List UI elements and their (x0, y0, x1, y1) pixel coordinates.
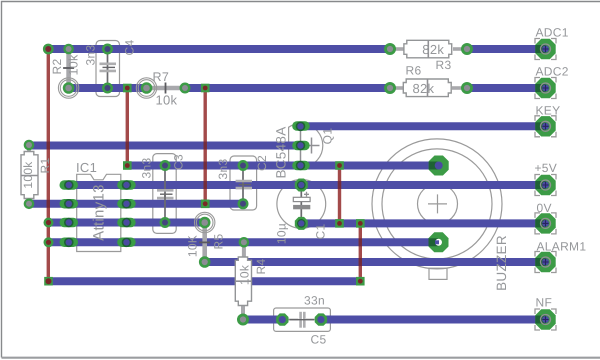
pad ADC2 (535, 78, 555, 98)
svg-text:ADC2: ADC2 (536, 65, 569, 79)
wire row F: IC1 to +5V (69, 181, 546, 189)
svg-text:BUZZER: BUZZER (494, 235, 509, 291)
transistor Q1 pads (292, 121, 310, 170)
svg-text:ADC1: ADC1 (536, 26, 569, 40)
capacitor C3 symbol (164, 166, 166, 199)
resistor R2 bottom via (58, 78, 78, 98)
svg-text:R3: R3 (436, 58, 452, 72)
wire crossing red3/rowE (204, 162, 207, 170)
pad NF (535, 309, 555, 329)
capacitor C5 symbol (283, 319, 299, 321)
wire row H left: via to R5 via (49, 219, 205, 227)
transistor Q1 outline (289, 124, 323, 168)
svg-text:R6: R6 (406, 64, 422, 78)
svg-text:R1: R1 (38, 158, 52, 174)
capacitor C2 pads (238, 160, 249, 171)
wire red 1 (47, 49, 50, 281)
resistor R1 pads (24, 140, 35, 151)
resistor R1 body (21, 152, 38, 199)
resistor R6 pads (384, 82, 396, 94)
wire row A right: R3 to ADC1 (467, 45, 546, 53)
svg-text:Attiny13: Attiny13 (91, 184, 108, 241)
resistor R4 body (235, 257, 251, 306)
svg-text:10k: 10k (156, 93, 178, 108)
wire red 4 (338, 166, 341, 224)
node top-left pad (43, 44, 54, 55)
capacitor C2 outline (230, 156, 257, 210)
svg-text:C3: C3 (172, 154, 186, 170)
wire row H right: C1 to 0V (301, 219, 546, 227)
wire row A left: pad to R3 (48, 45, 390, 53)
capacitor C5 outline (274, 308, 331, 331)
capacitor C4 outline (96, 41, 120, 97)
junction via red3 top (201, 84, 210, 93)
resistor R6 tick (427, 79, 429, 97)
resistor R4 bottom pad (237, 314, 249, 326)
capacitor C4 symbol (107, 49, 109, 71)
resistor R4 tick (235, 280, 251, 282)
svg-text:10K: 10K (186, 235, 200, 257)
resistor R3 body (404, 40, 452, 58)
resistor R6 body (403, 79, 451, 97)
resistor R7 right pad (180, 83, 191, 94)
pad 0V (535, 213, 555, 233)
svg-text:KEY: KEY (536, 104, 561, 118)
svg-text:10µ: 10µ (275, 223, 289, 244)
wire row I: via to buzzer bottom (49, 238, 439, 246)
wire row B mid: R7 to R6 (185, 84, 390, 92)
pad ADC1 (535, 39, 555, 59)
resistor R7 left via (136, 78, 156, 98)
junction red2 bottom (123, 161, 132, 170)
resistor R1 tick (21, 175, 38, 177)
resistor R6 leads (390, 86, 404, 90)
svg-text:3n3: 3n3 (140, 158, 154, 179)
buzzer top pad (429, 156, 449, 176)
svg-text:82k: 82k (422, 42, 444, 57)
wire row K: via to via (49, 277, 361, 285)
resistor R5 top via (195, 212, 215, 232)
pad +5V (535, 175, 555, 195)
svg-text:BC548A: BC548A (274, 126, 289, 178)
svg-text:Q1: Q1 (321, 128, 335, 145)
wire crossing red3/rowD (204, 142, 207, 150)
svg-text:C4: C4 (123, 40, 137, 56)
svg-text:0V: 0V (537, 201, 552, 215)
junction red5 bottom (356, 277, 365, 286)
resistor R5 bottom pad (199, 256, 211, 268)
pad ALARM1 (535, 252, 555, 272)
svg-text:IC1: IC1 (76, 160, 97, 175)
wire crossing red1/rowD (47, 142, 50, 150)
capacitor C4 pads (102, 44, 113, 55)
wire row N left: R4 to C5 (243, 316, 283, 324)
pad KEY (535, 116, 555, 136)
IC IC1 pads (60, 180, 136, 247)
junction via row B (123, 84, 132, 93)
svg-text:C5: C5 (311, 333, 327, 347)
via red1 row H (44, 218, 54, 228)
junction via red3 bottom (201, 200, 210, 209)
junction red4 top (335, 161, 344, 170)
capacitor C1 outline (277, 180, 326, 229)
capacitor C3 outline (153, 154, 176, 234)
svg-text:R2: R2 (50, 59, 64, 75)
wire row N right: C5 to NF (321, 316, 546, 324)
buzzer bottom pad (429, 232, 449, 252)
svg-text:10k: 10k (238, 264, 252, 285)
resistor R7 lead (147, 86, 186, 91)
svg-text:ALARM1: ALARM1 (537, 240, 587, 254)
resistor R3 tick (427, 40, 429, 58)
wire row C: Q1 to KEY (301, 122, 546, 130)
capacitor C3 pads (160, 160, 171, 171)
wire row G: R1 to C2 (29, 200, 243, 208)
resistor R4 leads (242, 242, 246, 258)
svg-text:C2: C2 (255, 155, 269, 171)
wire row E: junction to buzzer top (127, 162, 438, 170)
wire row B right: R6 to ADC2 (467, 84, 546, 92)
via red1 row I (44, 237, 54, 247)
svg-text:R5: R5 (212, 234, 226, 250)
wire row D: R1 to Q1 base (29, 142, 301, 150)
svg-text:82k: 82k (413, 81, 435, 96)
svg-text:+5V: +5V (535, 161, 558, 175)
svg-text:33n: 33n (304, 294, 325, 308)
junction red5 top (356, 219, 365, 228)
buzzer outline (372, 139, 502, 269)
junction red4 bottom (335, 219, 344, 228)
wire row B left: R2 via to R7 (69, 84, 147, 92)
capacitor C1 symbol (300, 185, 302, 223)
capacitor C1 pads (295, 179, 308, 192)
wire red 2 (126, 88, 129, 166)
svg-text:R7: R7 (153, 70, 170, 84)
resistor R5 lead (202, 223, 207, 263)
wire red 3 (203, 88, 206, 204)
capacitor C2 symbol (242, 166, 244, 185)
wire crossing red5/rowJ (359, 258, 362, 266)
svg-text:10k: 10k (67, 54, 81, 76)
svg-text:NF: NF (536, 296, 553, 310)
resistor R3 pads (384, 43, 396, 55)
wire crossing red2/rowD (126, 142, 129, 150)
via red1 bottom (44, 277, 53, 286)
resistor R3 leads (390, 47, 404, 51)
svg-text:3n3: 3n3 (84, 45, 98, 66)
wire crossing red5/rowI (359, 238, 362, 246)
resistor R2 top pad (63, 44, 74, 55)
svg-text:C1: C1 (314, 224, 328, 240)
wire row J: R5 to ALARM1 (205, 258, 546, 266)
transistor Q1 lead line (300, 123, 302, 169)
wire crossing red4/rowF (338, 181, 341, 189)
resistor R2 lead (66, 49, 71, 88)
capacitor C5 pads (276, 313, 288, 325)
dark blend marks where red crosses blue (47, 142, 362, 267)
svg-text:R4: R4 (254, 259, 268, 275)
wire crossing red3/rowF (204, 181, 207, 189)
resistor R1 leads (27, 145, 31, 153)
resistor R4 top pad (239, 237, 250, 248)
IC IC1 outline (77, 174, 121, 251)
svg-text:3n3: 3n3 (216, 159, 230, 180)
wire crossing red1/rowG (47, 200, 50, 208)
wire red 5 (359, 223, 362, 281)
svg-text:100k: 100k (21, 161, 35, 189)
